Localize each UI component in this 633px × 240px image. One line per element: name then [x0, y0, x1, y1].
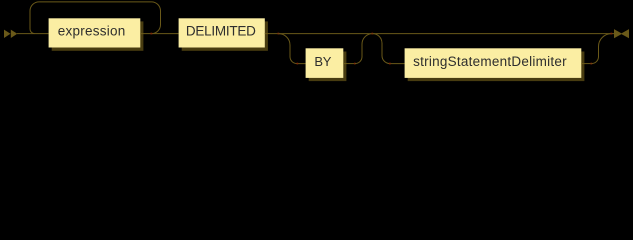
node: exit ascent start red dot	[591, 63, 593, 65]
node: end merge red dot	[611, 33, 613, 35]
wire: repetition loop over expression	[30, 2, 161, 34]
wire: stringStatementDelimiter exit	[581, 63, 591, 65]
box DELIMITED	[179, 18, 265, 47]
wire: descent from top line to stringStatementDelimiter	[373, 34, 405, 64]
wire: BY exit	[343, 63, 355, 65]
wire: ascent to end line	[592, 34, 612, 64]
wire: expression to DELIMITED	[140, 33, 178, 35]
wire: start to expression box	[17, 33, 49, 35]
wire: descent from top line to BY	[279, 34, 306, 64]
box stringStatementDelimiter	[405, 48, 582, 78]
node: mid junction red dot	[372, 33, 374, 35]
node: ascent start red dot	[354, 63, 356, 65]
node: branch-down red dot	[278, 33, 280, 35]
box expression: shadow	[52, 21, 144, 50]
box stringStatementDelimiter: shadow	[408, 52, 585, 82]
node: loop branch red dot	[151, 33, 153, 35]
node: descent landing red dot	[389, 63, 391, 65]
box DELIMITED: shadow	[182, 21, 268, 50]
svg-text:expression: expression	[58, 24, 126, 39]
end symbol (bowtie arrows)	[614, 29, 629, 38]
wire: ascent from BY row to top line	[355, 34, 373, 64]
node: descent landing red dot	[297, 63, 299, 65]
wire: long top line from DELIMITED exit to end symbol	[265, 33, 614, 35]
box expression	[49, 18, 141, 47]
start symbol (double arrowheads)	[4, 30, 17, 38]
box BY: shadow	[309, 52, 347, 82]
svg-text:stringStatementDelimiter: stringStatementDelimiter	[413, 54, 567, 69]
box BY	[306, 48, 344, 78]
svg-text:BY: BY	[314, 54, 331, 69]
svg-text:DELIMITED: DELIMITED	[186, 24, 256, 39]
